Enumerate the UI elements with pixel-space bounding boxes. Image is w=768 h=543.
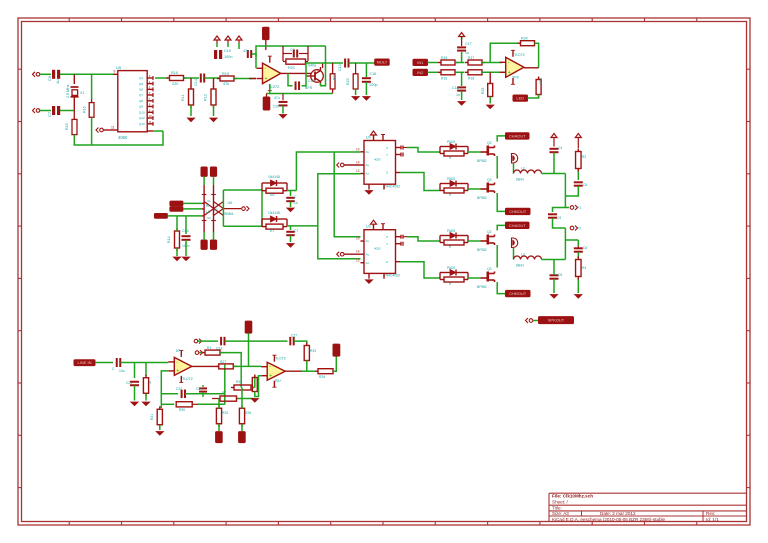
svg-text:R25: R25 [222, 411, 228, 415]
svg-text:R34: R34 [319, 375, 325, 379]
svg-text:C8: C8 [583, 183, 587, 187]
svg-text:Q6: Q6 [139, 88, 143, 92]
svg-text:R8+: R8+ [275, 379, 281, 383]
svg-text:U5: U5 [116, 65, 122, 70]
svg-text:1u: 1u [55, 80, 60, 84]
svg-text:R11: R11 [181, 94, 185, 101]
svg-text:Az: Az [366, 172, 370, 176]
svg-text:C4: C4 [558, 146, 562, 150]
svg-text:1n: 1n [456, 93, 460, 97]
svg-text:IN1: IN1 [417, 60, 424, 65]
svg-text:R26: R26 [245, 411, 251, 415]
svg-text:C17: C17 [465, 42, 472, 46]
svg-text:Q7: Q7 [139, 93, 143, 97]
svg-text:C25: C25 [182, 229, 189, 233]
svg-text:1N4148: 1N4148 [268, 211, 280, 215]
svg-text:1N4148: 1N4148 [268, 175, 280, 179]
svg-text:CHBOUT: CHBOUT [509, 209, 526, 214]
svg-text:R10: R10 [171, 71, 178, 75]
svg-text:11: 11 [111, 126, 115, 130]
svg-text:1n: 1n [294, 201, 298, 205]
svg-text:C9: C9 [557, 216, 561, 220]
svg-text:Y: Y [386, 242, 388, 246]
svg-text:R31: R31 [150, 414, 154, 420]
svg-text:Date: 2 mar 2012: Date: 2 mar 2012 [600, 511, 636, 516]
svg-text:C6: C6 [47, 75, 52, 81]
svg-text:10u: 10u [119, 369, 125, 373]
svg-text:R15: R15 [65, 123, 69, 130]
svg-text:+: + [269, 373, 272, 379]
svg-text:10: 10 [356, 237, 360, 241]
svg-text:BF982: BF982 [477, 196, 487, 200]
svg-text:P2: P2 [577, 227, 581, 231]
svg-text:Q4: Q4 [139, 76, 143, 80]
svg-text:PAD5: PAD5 [447, 177, 455, 181]
svg-text:12: 12 [356, 169, 360, 173]
svg-text:68nH: 68nH [516, 264, 525, 268]
svg-text:Size: A3: Size: A3 [552, 511, 569, 516]
svg-text:C?: C? [290, 48, 295, 52]
svg-text:Q3: Q3 [487, 267, 492, 271]
svg-text:C5: C5 [558, 273, 562, 277]
svg-text:4053: 4053 [374, 247, 381, 251]
svg-text:1n: 1n [465, 51, 469, 55]
svg-text:MULT: MULT [377, 60, 388, 65]
svg-text:CHAOUT: CHAOUT [509, 133, 526, 138]
svg-text:BF982: BF982 [477, 285, 487, 289]
svg-text:220p: 220p [370, 83, 378, 87]
svg-text:TL072: TL072 [514, 53, 525, 57]
svg-text:BF982: BF982 [477, 159, 487, 163]
svg-text:C18: C18 [452, 86, 459, 90]
svg-text:Ax: Ax [366, 239, 370, 243]
svg-text:+: + [508, 70, 511, 76]
svg-text:R16: R16 [83, 106, 87, 113]
svg-text:Q2: Q2 [487, 230, 492, 234]
svg-text:R23: R23 [346, 78, 350, 85]
svg-text:Q3: Q3 [487, 178, 492, 182]
svg-text:Q2: Q2 [487, 141, 492, 145]
svg-text:R12: R12 [204, 94, 208, 101]
svg-text:X1: X1 [80, 91, 84, 95]
svg-text:PAD5: PAD5 [447, 229, 455, 233]
svg-text:R14: R14 [167, 236, 171, 243]
svg-text:Sheet: /: Sheet: / [552, 499, 569, 504]
svg-text:Title:: Title: [552, 506, 562, 511]
svg-text:C10: C10 [224, 49, 231, 53]
svg-text:Q12: Q12 [139, 116, 145, 120]
svg-text:2.5 MHz: 2.5 MHz [66, 84, 70, 98]
svg-text:P1: P1 [577, 206, 581, 210]
svg-text:LINE IN: LINE IN [77, 360, 91, 365]
svg-text:Ay: Ay [366, 252, 370, 256]
svg-text:47k: 47k [223, 82, 229, 86]
svg-text:R19: R19 [222, 72, 229, 76]
svg-text:R16: R16 [441, 77, 447, 81]
svg-text:C27: C27 [291, 334, 297, 338]
svg-text:+: + [176, 368, 179, 374]
svg-text:U3: U3 [366, 136, 371, 140]
svg-text:LO: LO [206, 210, 211, 214]
svg-text:KiCad E.D.A. eeschema (2010-0: KiCad E.D.A. eeschema (2010-05-05 BZR 23… [552, 517, 666, 522]
svg-text:100n: 100n [224, 55, 232, 59]
svg-text:R3: R3 [582, 266, 586, 270]
svg-text:Z: Z [386, 260, 388, 264]
svg-text:R33: R33 [310, 349, 316, 353]
svg-text:Q9: Q9 [139, 105, 143, 109]
svg-text:Az: Az [366, 261, 370, 265]
svg-text:14: 14 [356, 161, 360, 165]
svg-text:Ax: Ax [366, 150, 370, 154]
svg-text:C16: C16 [370, 72, 377, 76]
svg-text:R22: R22 [333, 74, 337, 80]
svg-text:R30: R30 [179, 408, 185, 412]
svg-text:TL072: TL072 [182, 377, 193, 381]
svg-text:Q8: Q8 [139, 99, 143, 103]
svg-text:R26: R26 [539, 78, 543, 84]
svg-text:PAD5: PAD5 [447, 266, 455, 270]
svg-text:+: + [265, 76, 268, 82]
svg-text:R2: R2 [582, 155, 586, 159]
svg-text:R27: R27 [220, 360, 226, 364]
svg-text:220: 220 [172, 82, 178, 86]
svg-text:RF: RF [206, 204, 210, 208]
svg-text:R21: R21 [288, 66, 295, 70]
svg-text:C7: C7 [47, 111, 52, 117]
svg-text:L3: L3 [521, 253, 525, 257]
svg-text:R15: R15 [441, 56, 447, 60]
svg-text:C20: C20 [273, 105, 279, 109]
svg-text:R7: R7 [222, 391, 226, 395]
svg-text:U3: U3 [366, 225, 371, 229]
svg-text:C7: C7 [294, 229, 298, 233]
svg-text:Ay: Ay [366, 163, 370, 167]
svg-text:68nH: 68nH [516, 178, 525, 182]
svg-text:C14: C14 [194, 79, 198, 86]
svg-text:TP8: TP8 [512, 76, 519, 80]
svg-text:47u: 47u [243, 49, 249, 53]
svg-text:TL072: TL072 [275, 357, 286, 361]
svg-text:R25: R25 [481, 88, 485, 94]
svg-text:Q5: Q5 [139, 82, 143, 86]
svg-text:Id: 1/1: Id: 1/1 [706, 517, 719, 522]
svg-text:SBM1: SBM1 [224, 212, 234, 216]
svg-text:File: Clk10Mhz.sch: File: Clk10Mhz.sch [552, 493, 593, 498]
svg-text:10: 10 [149, 114, 153, 118]
svg-text:R24: R24 [521, 37, 528, 41]
svg-text:9: 9 [114, 70, 116, 74]
svg-text:IF: IF [215, 208, 218, 212]
svg-text:47u: 47u [274, 96, 280, 100]
svg-text:R18: R18 [468, 77, 474, 81]
svg-text:Y: Y [386, 153, 388, 157]
svg-text:CHAOUT: CHAOUT [509, 223, 526, 228]
svg-text:74HC4053: 74HC4053 [384, 274, 400, 278]
svg-text:11: 11 [149, 120, 152, 124]
svg-text:R17: R17 [468, 56, 474, 60]
svg-text:R29: R29 [236, 380, 242, 384]
svg-text:Q13: Q13 [139, 122, 145, 126]
svg-text:L2: L2 [521, 167, 525, 171]
svg-text:V1: V1 [207, 199, 211, 203]
svg-text:R7: R7 [270, 229, 274, 233]
svg-text:LED: LED [516, 96, 524, 101]
svg-text:C6: C6 [583, 246, 587, 250]
svg-text:X: X [386, 146, 388, 150]
svg-text:C13: C13 [338, 64, 342, 71]
svg-text:BFR: BFR [305, 86, 313, 90]
svg-text:Rev:: Rev: [706, 511, 715, 516]
svg-text:940a: 940a [308, 64, 316, 68]
svg-text:R6: R6 [270, 193, 274, 197]
svg-text:74HC4053: 74HC4053 [384, 185, 400, 189]
svg-text:PAD5: PAD5 [447, 140, 455, 144]
svg-text:C21: C21 [126, 381, 132, 385]
svg-text:CHBOUT: CHBOUT [509, 291, 526, 296]
svg-text:C15: C15 [308, 79, 314, 83]
svg-text:Z: Z [386, 171, 388, 175]
svg-text:Q10: Q10 [139, 111, 145, 115]
svg-text:10: 10 [356, 148, 360, 152]
svg-text:4053: 4053 [374, 158, 381, 162]
svg-text:IN2: IN2 [417, 70, 424, 75]
svg-text:14: 14 [356, 250, 360, 254]
svg-text:X: X [386, 235, 388, 239]
svg-text:12: 12 [356, 258, 360, 262]
svg-text:8T+: 8T+ [176, 349, 182, 353]
svg-text:U6: U6 [228, 201, 233, 205]
svg-text:SPKOUT: SPKOUT [548, 318, 565, 323]
svg-text:BF982: BF982 [477, 248, 487, 252]
svg-text:V2: V2 [207, 216, 211, 220]
svg-text:4060: 4060 [118, 135, 128, 140]
svg-text:C24: C24 [196, 387, 202, 391]
svg-text:R1: R1 [207, 346, 211, 350]
svg-text:C22: C22 [176, 387, 182, 391]
